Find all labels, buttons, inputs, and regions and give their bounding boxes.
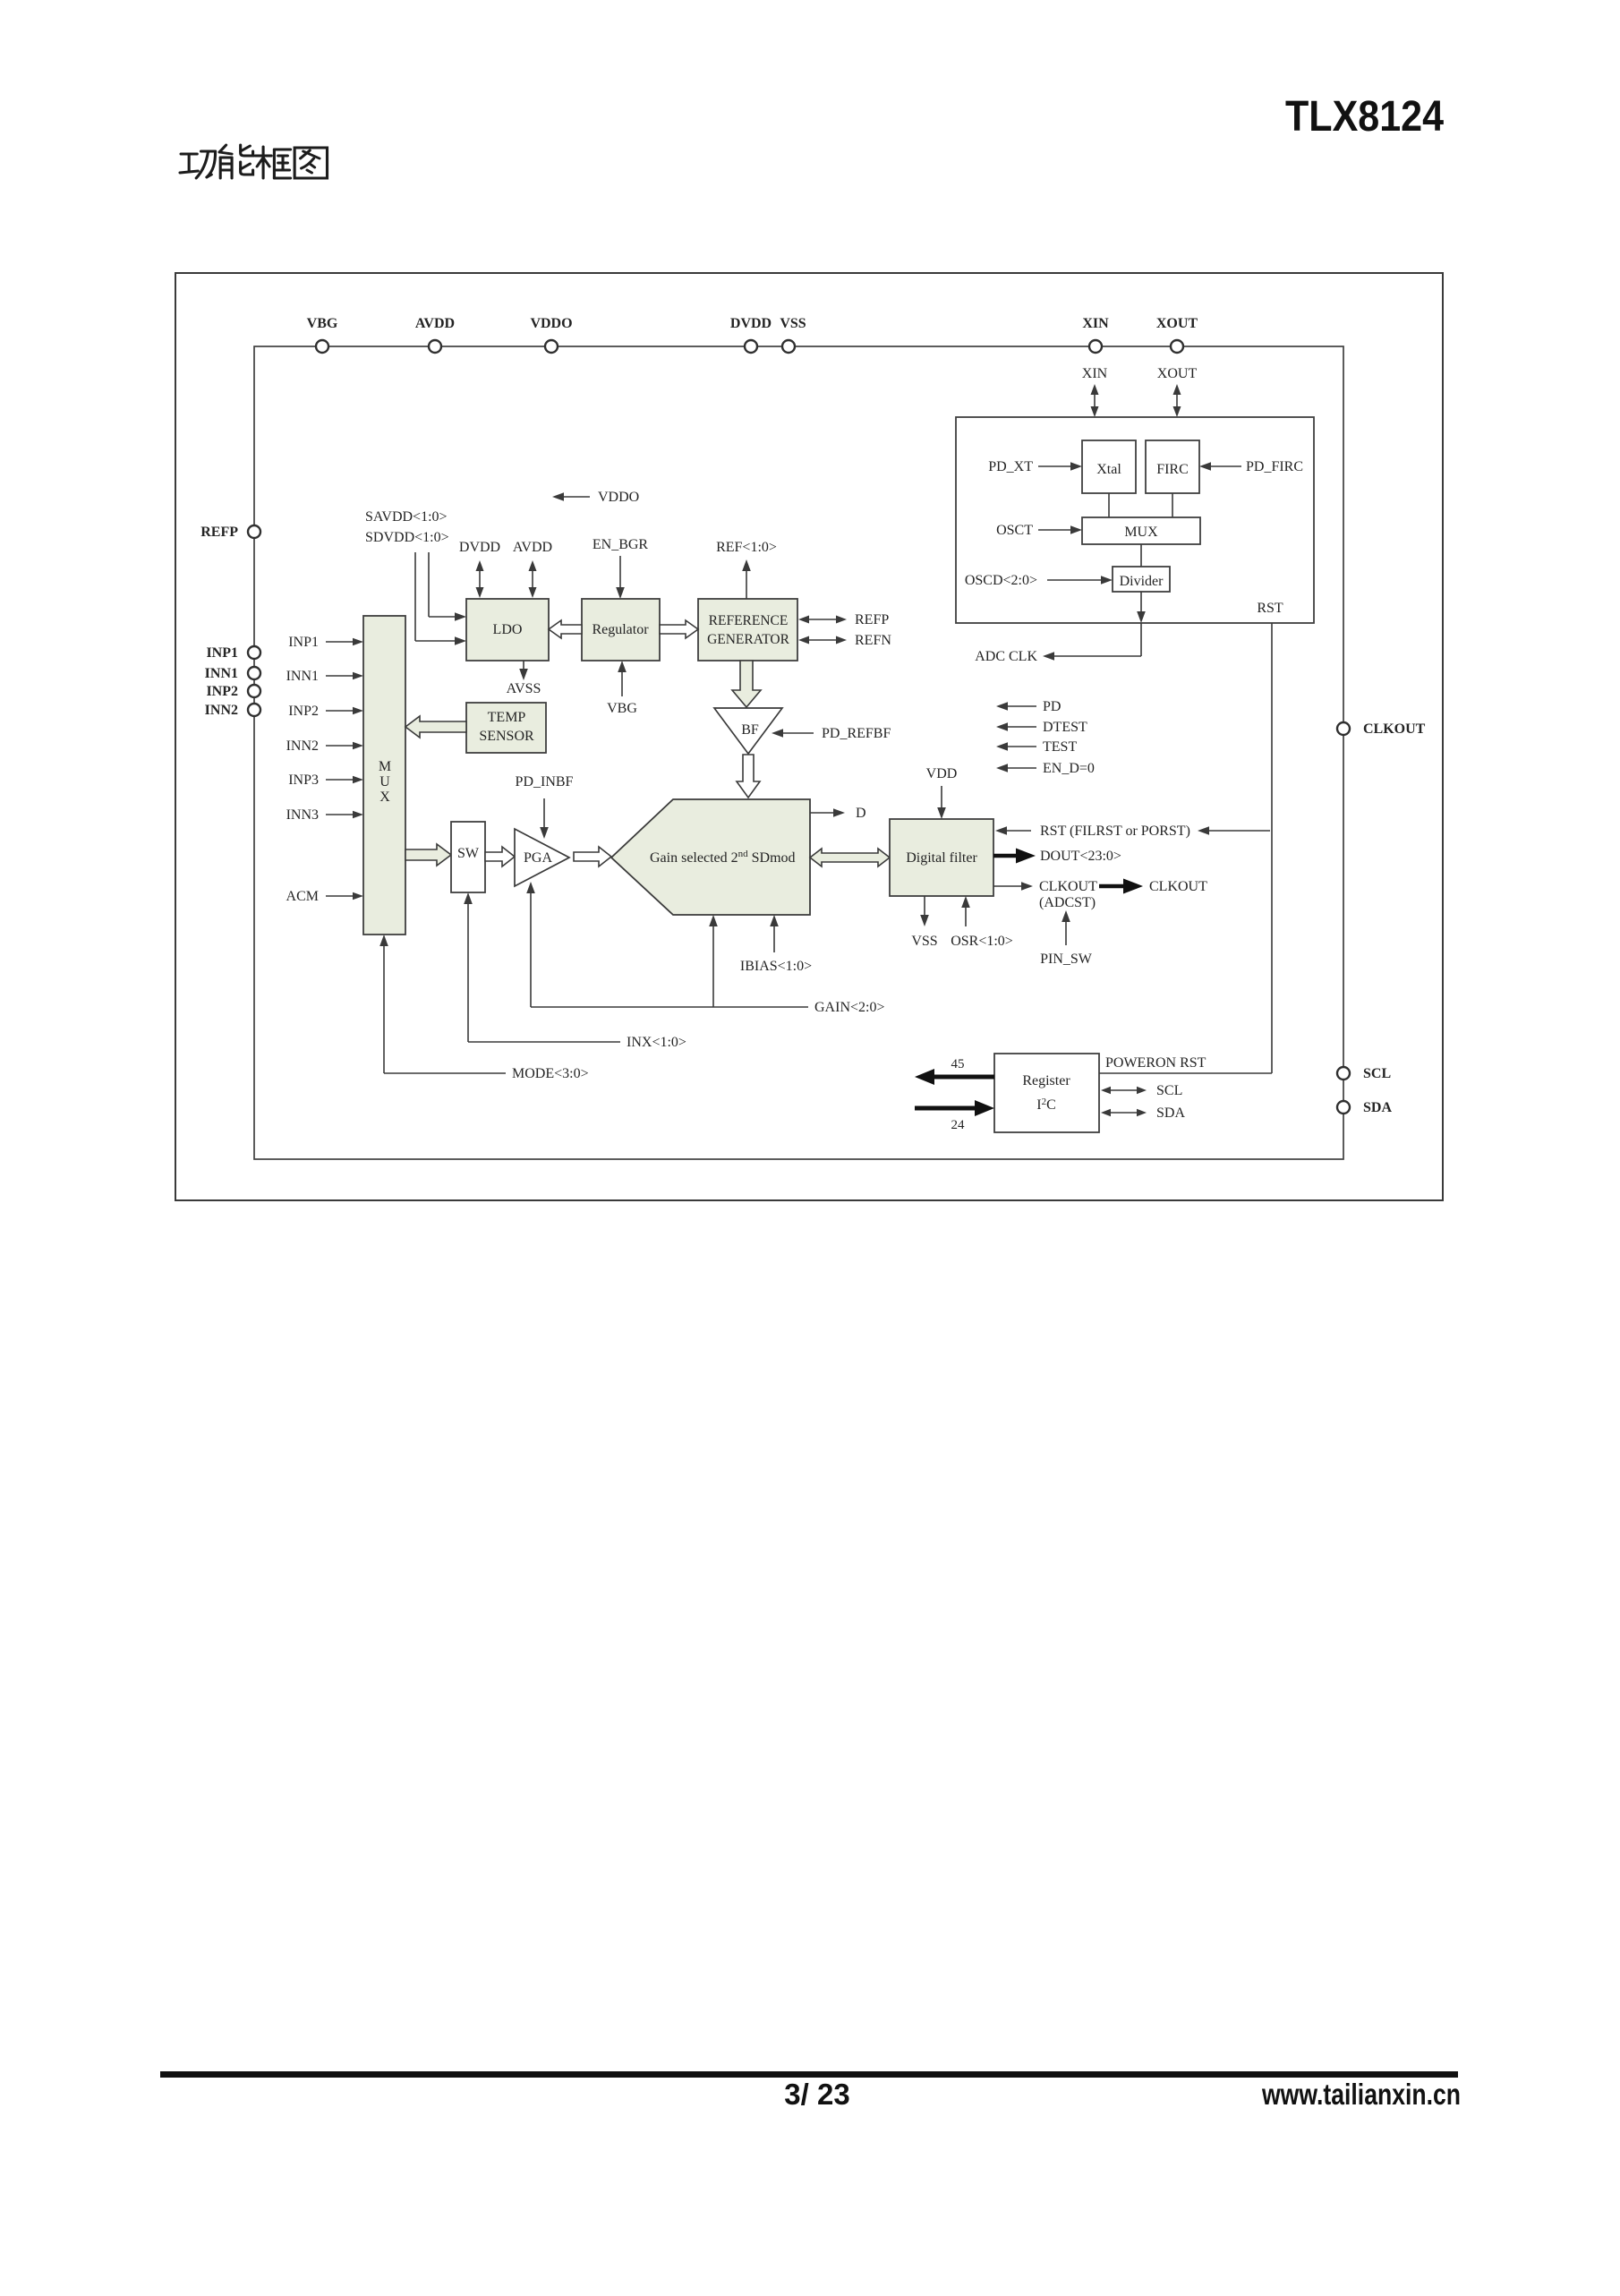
svg-text:3/ 23: 3/ 23 <box>784 2078 849 2111</box>
svg-text:PD_FIRC: PD_FIRC <box>1246 459 1303 474</box>
svg-text:DVDD: DVDD <box>730 316 772 331</box>
svg-text:EN_BGR: EN_BGR <box>593 537 649 552</box>
svg-text:GAIN<2:0>: GAIN<2:0> <box>814 1000 884 1015</box>
svg-text:DVDD: DVDD <box>459 540 500 555</box>
svg-text:IBIAS<1:0>: IBIAS<1:0> <box>740 959 812 974</box>
svg-text:SDA: SDA <box>1156 1105 1185 1121</box>
svg-text:OSR<1:0>: OSR<1:0> <box>951 934 1013 949</box>
svg-text:TLX8124: TLX8124 <box>1285 93 1444 141</box>
svg-text:CLKOUT: CLKOUT <box>1149 879 1207 894</box>
svg-text:INN1: INN1 <box>286 669 319 684</box>
svg-text:DTEST: DTEST <box>1043 720 1087 735</box>
svg-text:Xtal: Xtal <box>1096 462 1121 477</box>
svg-text:XIN: XIN <box>1082 366 1108 381</box>
svg-text:OSCD<2:0>: OSCD<2:0> <box>965 573 1037 588</box>
svg-text:TEMP: TEMP <box>488 710 526 725</box>
svg-text:VBG: VBG <box>307 316 338 331</box>
svg-text:SCL: SCL <box>1156 1083 1182 1098</box>
svg-text:Digital filter: Digital filter <box>906 850 977 866</box>
svg-text:SDVDD<1:0>: SDVDD<1:0> <box>365 530 449 545</box>
svg-text:XOUT: XOUT <box>1156 316 1198 331</box>
svg-text:VDD: VDD <box>926 766 958 781</box>
svg-text:INP1: INP1 <box>206 645 238 661</box>
svg-text:PD_REFBF: PD_REFBF <box>822 726 891 741</box>
svg-text:VDDO: VDDO <box>530 316 572 331</box>
svg-text:AVDD: AVDD <box>513 540 552 555</box>
svg-text:BF: BF <box>741 722 759 738</box>
svg-text:POWERON RST: POWERON RST <box>1105 1055 1206 1071</box>
svg-text:X: X <box>379 790 390 805</box>
svg-text:RST (FILRST or PORST): RST (FILRST or PORST) <box>1040 824 1190 839</box>
svg-text:45: 45 <box>951 1057 965 1071</box>
svg-text:U: U <box>379 774 390 790</box>
svg-text:REFP: REFP <box>855 612 889 627</box>
svg-text:INN1: INN1 <box>205 666 238 681</box>
svg-text:(ADCST): (ADCST) <box>1039 895 1096 910</box>
svg-text:REFERENCE: REFERENCE <box>709 613 789 628</box>
svg-text:Divider: Divider <box>1120 574 1164 589</box>
svg-text:INN2: INN2 <box>286 738 319 754</box>
svg-text:REFN: REFN <box>855 633 891 648</box>
svg-text:REF<1:0>: REF<1:0> <box>716 540 777 555</box>
svg-text:VSS: VSS <box>911 934 937 949</box>
svg-text:INP3: INP3 <box>288 772 319 788</box>
svg-text:M: M <box>379 759 391 774</box>
svg-text:VBG: VBG <box>607 701 637 716</box>
svg-text:INP2: INP2 <box>206 684 238 699</box>
svg-text:INN3: INN3 <box>286 807 319 823</box>
svg-text:AVSS: AVSS <box>507 681 541 696</box>
svg-text:CLKOUT: CLKOUT <box>1363 721 1426 737</box>
svg-text:www.tailianxin.cn: www.tailianxin.cn <box>1261 2078 1461 2111</box>
svg-text:PD_XT: PD_XT <box>988 459 1033 474</box>
svg-text:ACM: ACM <box>286 889 319 904</box>
svg-text:RST: RST <box>1257 601 1283 616</box>
svg-text:INN2: INN2 <box>205 703 238 718</box>
svg-text:MUX: MUX <box>1124 525 1158 540</box>
svg-text:XOUT: XOUT <box>1157 366 1198 381</box>
svg-text:CLKOUT: CLKOUT <box>1039 879 1097 894</box>
svg-text:ADC CLK: ADC CLK <box>975 649 1037 664</box>
svg-text:PD: PD <box>1043 699 1061 714</box>
svg-text:XIN: XIN <box>1082 316 1109 331</box>
svg-text:Gain selected 2nd SDmod: Gain selected 2nd SDmod <box>650 849 796 866</box>
svg-text:OSCT: OSCT <box>996 523 1033 538</box>
svg-text:AVDD: AVDD <box>415 316 455 331</box>
svg-text:24: 24 <box>951 1118 966 1132</box>
svg-text:LDO: LDO <box>493 622 523 637</box>
svg-text:D: D <box>856 806 866 821</box>
svg-text:SDA: SDA <box>1363 1100 1392 1115</box>
svg-text:Register: Register <box>1022 1073 1070 1088</box>
svg-text:FIRC: FIRC <box>1156 462 1189 477</box>
svg-text:EN_D=0: EN_D=0 <box>1043 761 1095 776</box>
svg-text:MODE<3:0>: MODE<3:0> <box>512 1066 589 1081</box>
svg-text:INX<1:0>: INX<1:0> <box>627 1035 686 1050</box>
svg-text:VDDO: VDDO <box>598 490 639 505</box>
svg-text:SENSOR: SENSOR <box>479 729 534 744</box>
svg-text:SCL: SCL <box>1363 1066 1391 1081</box>
svg-text:TEST: TEST <box>1043 739 1077 755</box>
svg-text:INP1: INP1 <box>288 635 319 650</box>
svg-text:REFP: REFP <box>200 525 238 540</box>
svg-text:GENERATOR: GENERATOR <box>707 632 790 647</box>
svg-text:I2C: I2C <box>1036 1097 1056 1113</box>
svg-text:INP2: INP2 <box>288 704 319 719</box>
svg-text:SAVDD<1:0>: SAVDD<1:0> <box>365 509 448 525</box>
svg-text:PD_INBF: PD_INBF <box>516 774 574 790</box>
svg-text:PGA: PGA <box>524 850 552 866</box>
svg-text:Regulator: Regulator <box>592 622 649 637</box>
svg-text:SW: SW <box>457 846 480 861</box>
svg-text:DOUT<23:0>: DOUT<23:0> <box>1040 849 1121 864</box>
svg-text:VSS: VSS <box>780 316 806 331</box>
svg-text:PIN_SW: PIN_SW <box>1040 952 1093 967</box>
